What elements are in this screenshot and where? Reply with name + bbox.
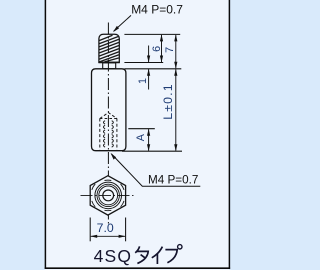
svg-text:M4 P=0.7: M4 P=0.7 xyxy=(148,173,198,186)
extension line stud top xyxy=(124,33,180,35)
dimension 1 outside arrows xyxy=(147,46,150,90)
extension line body top xyxy=(124,68,181,70)
inner cell background xyxy=(45,0,229,270)
hex circle thread xyxy=(99,186,118,205)
neck (unthreaded shank) xyxy=(103,63,116,69)
leader arrow top M4 P=0.7 xyxy=(113,15,131,32)
dimension line L±0.1 xyxy=(174,69,177,151)
extension line thread bottom xyxy=(124,62,163,64)
body (hex standoff side view) xyxy=(92,69,126,151)
extension line thread depth A xyxy=(128,128,155,130)
7.0 extension line right xyxy=(125,218,127,242)
internal thread shoulder dashed xyxy=(100,118,117,120)
left cell border xyxy=(44,0,46,269)
internal thread crest scallops right xyxy=(112,121,114,148)
hex hole xyxy=(103,190,114,201)
internal thread major dia dashed right xyxy=(116,119,118,150)
7.0 dimension line xyxy=(90,235,125,238)
vertical centerline xyxy=(107,23,109,224)
bottom cell border xyxy=(45,267,230,269)
leader arrow bottom M4 P=0.7 xyxy=(111,153,201,186)
stud bottom edge xyxy=(98,62,119,64)
hex horizontal centerline xyxy=(81,194,136,196)
extension line body bottom xyxy=(122,150,182,152)
internal thread major dia dashed left xyxy=(99,119,101,150)
hex circle outer xyxy=(95,182,122,209)
hex chamfer corner arcs xyxy=(92,180,124,211)
svg-text:4SQ: 4SQ xyxy=(94,246,133,266)
dimension line 6 xyxy=(160,34,163,62)
svg-text:A: A xyxy=(135,133,147,141)
dimension line A xyxy=(147,129,150,152)
svg-text:7.0: 7.0 xyxy=(97,221,114,235)
svg-text:6: 6 xyxy=(151,46,163,52)
hex end view outline xyxy=(90,176,125,215)
internal thread crest scallops left xyxy=(103,121,105,148)
7.0 extension line left xyxy=(89,218,91,242)
hex circle middle xyxy=(97,184,119,206)
svg-text:7: 7 xyxy=(164,47,176,53)
dimension line 7 xyxy=(174,34,177,68)
svg-text:1: 1 xyxy=(137,78,149,84)
svg-text:M4 P=0.7: M4 P=0.7 xyxy=(131,3,183,17)
internal thread hidden lines: drill point peak xyxy=(100,113,117,119)
right cell border xyxy=(228,0,230,269)
stud (male thread) outline M4 xyxy=(99,34,119,62)
katakana TA xyxy=(135,246,148,263)
svg-text:L±0.1: L±0.1 xyxy=(161,83,175,119)
katakana PU xyxy=(165,245,182,263)
thread hatch lines xyxy=(99,35,119,62)
katakana I xyxy=(152,247,163,264)
